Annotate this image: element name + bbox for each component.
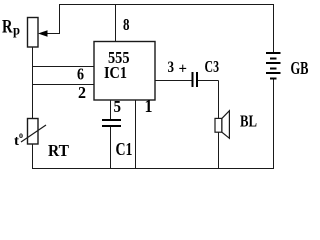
svg-text:R: R (2, 17, 13, 38)
svg-text:3: 3 (168, 59, 175, 76)
svg-text:BL: BL (240, 112, 257, 131)
svg-text:+: + (179, 61, 188, 78)
svg-text:5: 5 (114, 97, 122, 116)
svg-text:GB: GB (291, 58, 309, 78)
svg-text:p: p (13, 24, 20, 39)
svg-text:1: 1 (145, 96, 153, 116)
svg-text:C1: C1 (116, 139, 133, 159)
svg-text:8: 8 (123, 15, 130, 34)
svg-text:C3: C3 (205, 57, 220, 76)
svg-text:o: o (19, 130, 23, 140)
svg-text:6: 6 (77, 65, 84, 84)
svg-text:RT: RT (48, 141, 70, 160)
svg-text:2: 2 (78, 83, 86, 102)
svg-text:IC1: IC1 (104, 63, 127, 82)
